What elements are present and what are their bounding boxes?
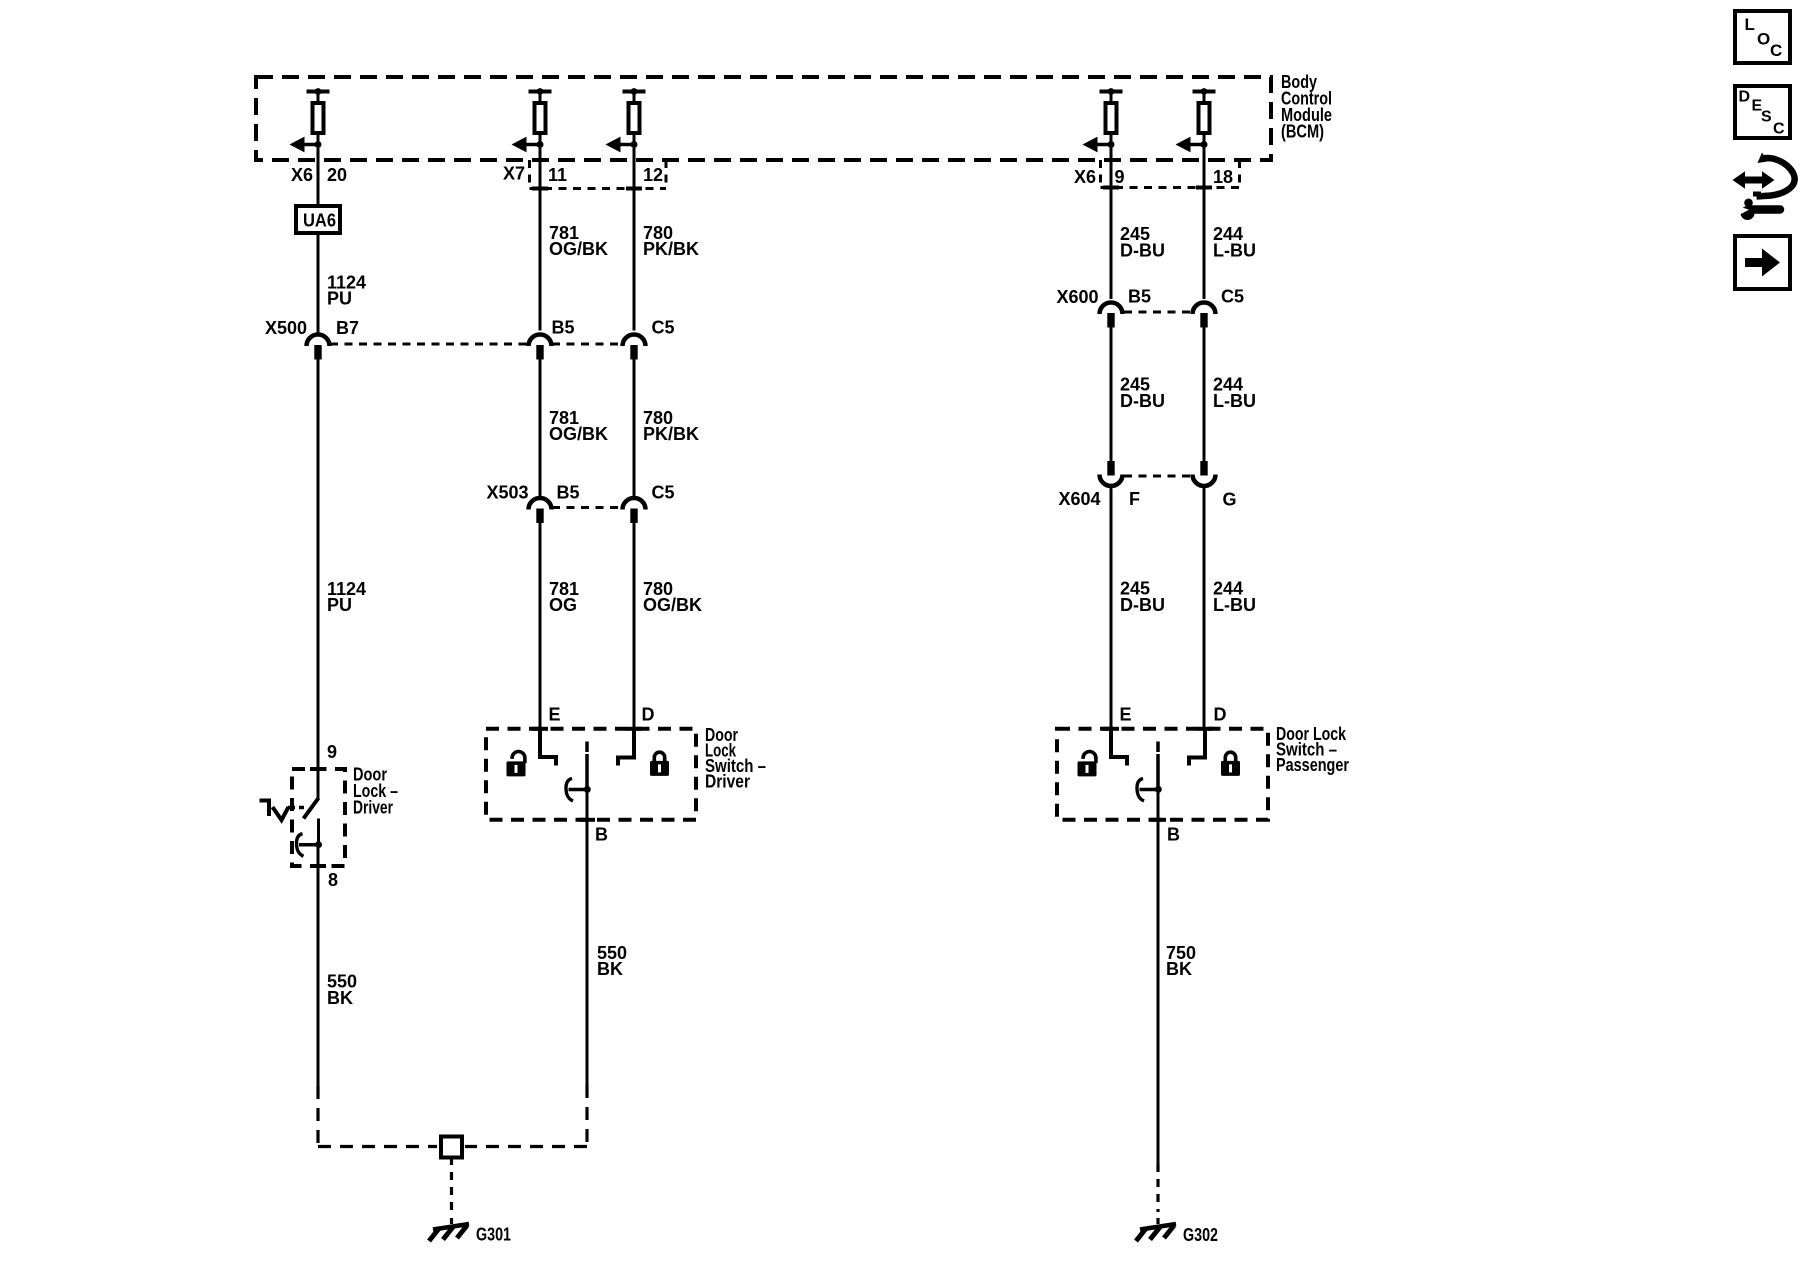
tick where wire 11 crosses X7 box <box>532 187 548 191</box>
svg-text:D-BU: D-BU <box>1120 241 1165 261</box>
connector half X503-B5 <box>529 498 552 523</box>
svg-text:D-BU: D-BU <box>1120 595 1165 615</box>
wire 781 OG/BK to X503 <box>539 359 542 497</box>
svg-text:UA6: UA6 <box>303 211 336 231</box>
wire 780 OG/BK to switch D <box>633 523 636 729</box>
wire to pin 8 <box>317 848 320 866</box>
svg-text:G301: G301 <box>476 1225 511 1245</box>
switch pole (passenger) <box>1156 754 1160 790</box>
dashed wire to G302 <box>1156 1164 1159 1212</box>
switch pole dashed hinge (passenger) <box>1156 742 1160 753</box>
wire X6-20 from BCM <box>317 148 320 204</box>
svg-text:18: 18 <box>1213 167 1233 187</box>
wire X6-18 from BCM <box>1203 148 1206 299</box>
svg-text:X7: X7 <box>503 164 525 184</box>
switch lever arm <box>569 788 588 792</box>
X7 pin connector dashed box <box>528 160 531 189</box>
wire 245 D-BU X600 to X604 <box>1110 327 1113 461</box>
mechanical link dashes <box>288 806 304 810</box>
svg-text:8: 8 <box>328 870 338 890</box>
X503 inline connector dashed link <box>552 506 622 509</box>
lever handle hook <box>297 834 304 857</box>
fuse UA6 box <box>296 206 340 233</box>
svg-text:11: 11 <box>548 165 567 185</box>
switch pole dashed hinge <box>585 742 589 753</box>
E contact hook <box>540 729 556 766</box>
svg-text:20: 20 <box>327 165 347 185</box>
wire 550 BK (switch B) <box>586 820 589 1085</box>
lock padlock icon (passenger) <box>1221 752 1240 776</box>
wire UA6 to X500 <box>317 235 320 333</box>
svg-text:E: E <box>1120 705 1132 725</box>
lever arm <box>299 843 319 847</box>
switch lever handle hook (passenger) <box>1137 779 1144 802</box>
tick E into switch box <box>532 727 548 731</box>
wire X7-12 from BCM <box>633 148 636 331</box>
svg-text:L: L <box>1745 15 1755 34</box>
switch pivot dot (passenger) <box>1155 786 1162 793</box>
svg-text:X600: X600 <box>1057 287 1099 307</box>
svg-text:O: O <box>1757 30 1770 49</box>
tick B out of switch box <box>579 818 595 822</box>
DESC icon box <box>1735 86 1790 138</box>
X6 (right) pin connector dashed box <box>1099 160 1102 188</box>
tick where wire 9 crosses X6 box <box>1103 186 1119 190</box>
ground G302 <box>1136 1224 1176 1241</box>
svg-text:X500: X500 <box>265 318 307 338</box>
D contact hook (passenger) <box>1189 729 1205 766</box>
Door Lock - Driver dashed box <box>292 769 345 866</box>
svg-text:C5: C5 <box>652 318 675 338</box>
unlock padlock icon (driver) <box>507 752 526 777</box>
switch lever arm (passenger) <box>1140 788 1159 792</box>
svg-text:D: D <box>1214 705 1227 725</box>
svg-text:C5: C5 <box>652 483 675 503</box>
wrench icon <box>1753 205 1780 214</box>
tick D into switch box <box>626 727 642 731</box>
dashed run switch-B wire to splice <box>585 1085 588 1147</box>
unlock padlock icon (passenger) <box>1078 752 1097 777</box>
svg-text:9: 9 <box>327 742 337 762</box>
BCM internal resistor + direction arrow, R-unlock 245 <box>1083 88 1123 152</box>
svg-text:PU: PU <box>327 289 352 309</box>
wire X6-9 from BCM <box>1110 148 1113 299</box>
svg-text:PU: PU <box>327 595 352 615</box>
tick where wire 18 crosses X6 box <box>1196 186 1212 190</box>
BCM internal resistor + direction arrow, R-lock 244 <box>1176 88 1216 152</box>
connector half X500-C5 <box>623 335 646 360</box>
tick D into switch box (passenger) <box>1197 727 1213 731</box>
svg-text:B5: B5 <box>552 318 575 338</box>
svg-text:L-BU: L-BU <box>1213 391 1256 411</box>
svg-text:Driver: Driver <box>705 772 750 792</box>
wire X7-11 from BCM <box>539 148 542 331</box>
wire 750 BK <box>1157 820 1160 1164</box>
svg-text:OG/BK: OG/BK <box>549 424 608 444</box>
svg-text:C: C <box>1770 41 1782 60</box>
connector half X604-F <box>1100 461 1123 486</box>
connector half X500-B7 <box>307 335 330 360</box>
svg-text:PK/BK: PK/BK <box>643 424 699 444</box>
svg-text:D-BU: D-BU <box>1120 391 1165 411</box>
svg-text:G: G <box>1223 490 1237 510</box>
Body Control Module (BCM) dashed box <box>256 77 1271 160</box>
manual key lever symbol <box>260 799 272 803</box>
forward arrow icon box <box>1735 236 1790 289</box>
BCM internal resistor + direction arrow, R-unlock 781 <box>512 88 552 152</box>
wire 1124 PU to door lock <box>317 359 320 767</box>
Door Lock Switch - Driver dashed box <box>486 729 696 820</box>
svg-text:X6: X6 <box>1074 167 1096 187</box>
svg-text:E: E <box>549 705 561 725</box>
svg-text:B: B <box>1167 825 1180 845</box>
connector half X604-G <box>1193 461 1216 486</box>
wire 245 D-BU to passenger switch E <box>1110 488 1113 729</box>
svg-text:C: C <box>1773 121 1785 138</box>
svg-text:Driver: Driver <box>353 798 393 818</box>
connector half X600-B5 <box>1100 303 1123 328</box>
svg-text:OG/BK: OG/BK <box>549 239 608 259</box>
svg-text:(BCM): (BCM) <box>1281 122 1324 142</box>
tick E into switch box (passenger) <box>1103 727 1119 731</box>
connector half X600-C5 <box>1193 303 1216 328</box>
svg-text:12: 12 <box>643 165 663 185</box>
tick wire 8 out of door lock box <box>310 864 326 868</box>
Door Lock Switch - Passenger dashed box <box>1057 729 1268 820</box>
BCM internal resistor + direction arrow, R-lock cmd UA6 wire <box>290 88 330 152</box>
BCM internal resistor + direction arrow, R-lock 780 <box>606 88 646 152</box>
svg-text:S: S <box>1761 109 1772 126</box>
door lock lower contact <box>317 819 320 843</box>
switch pivot dot <box>584 786 591 793</box>
wire 550 BK (driver lock) <box>317 866 320 1086</box>
X600 inline connector dashed link <box>1124 311 1193 314</box>
svg-text:L-BU: L-BU <box>1213 241 1256 261</box>
stub below splice <box>450 1158 453 1166</box>
switch lever handle hook <box>566 779 573 802</box>
svg-text:BK: BK <box>1166 959 1192 979</box>
ground G301 <box>429 1224 469 1241</box>
wire 780 PK/BK to X503 <box>633 359 636 497</box>
connector half X500-B5 <box>529 335 552 360</box>
svg-text:X604: X604 <box>1059 489 1101 509</box>
lock padlock icon (driver) <box>650 752 669 776</box>
svg-text:B5: B5 <box>557 483 580 503</box>
tick wire 9 into door lock box <box>310 767 326 771</box>
wire 244 L-BU X600 to X604 <box>1203 327 1206 461</box>
E contact hook (passenger) <box>1111 729 1127 766</box>
svg-text:C5: C5 <box>1221 287 1244 307</box>
svg-text:PK/BK: PK/BK <box>643 239 699 259</box>
tick where wire 12 crosses X7 box <box>626 187 642 191</box>
wire 244 L-BU to passenger switch D <box>1203 488 1206 729</box>
door lock switch blade <box>304 798 319 819</box>
curved band arrow with double arrow icon <box>1757 158 1795 196</box>
switch pole <box>585 754 589 790</box>
wire pole to B (passenger) <box>1157 792 1160 820</box>
svg-text:OG: OG <box>549 595 577 615</box>
svg-text:X6: X6 <box>291 165 313 185</box>
tick B out of switch box (passenger) <box>1150 818 1166 822</box>
wire pole to B <box>586 792 589 820</box>
svg-text:B5: B5 <box>1128 287 1151 307</box>
dashed wire splice to G301 <box>450 1172 453 1212</box>
svg-text:BK: BK <box>597 959 623 979</box>
X604 inline connector dashed link <box>1124 475 1193 478</box>
svg-text:F: F <box>1129 489 1140 509</box>
connector half X503-C5 <box>623 498 646 523</box>
svg-text:X503: X503 <box>487 483 529 503</box>
svg-text:D: D <box>642 705 655 725</box>
svg-text:9: 9 <box>1115 167 1125 187</box>
pivot dot <box>315 841 322 848</box>
splice S-box <box>441 1137 462 1158</box>
svg-text:OG/BK: OG/BK <box>643 595 702 615</box>
door lock internal: wire down <box>317 769 320 799</box>
dashed run driver-lock wire to splice <box>316 1086 319 1147</box>
svg-text:D: D <box>1739 89 1751 106</box>
svg-text:BK: BK <box>327 988 353 1008</box>
svg-text:B: B <box>595 825 608 845</box>
wire 781 OG to switch E <box>539 523 542 729</box>
svg-text:G302: G302 <box>1183 1225 1218 1245</box>
D contact hook <box>618 729 634 766</box>
svg-text:L-BU: L-BU <box>1213 595 1256 615</box>
X500 inline connector dashed link <box>330 343 528 346</box>
svg-text:B7: B7 <box>336 318 359 338</box>
LOC icon box <box>1735 11 1790 63</box>
svg-text:Passenger: Passenger <box>1276 755 1349 775</box>
